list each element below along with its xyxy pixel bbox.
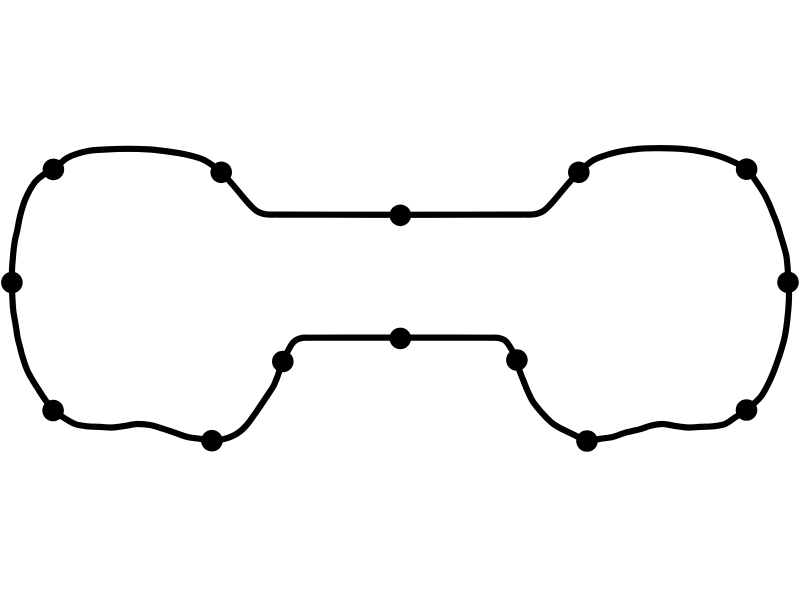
- bolt hole 14 (left extreme): [1, 272, 23, 294]
- bolt hole 8 (bottom-right inner): [576, 430, 598, 452]
- bolt hole 3 (top neck middle): [390, 205, 412, 227]
- bolt hole 10 (bottom neck middle): [390, 328, 412, 350]
- bolt hole 12 (bottom-left inner): [201, 430, 223, 452]
- bolt hole 4 (top-right inner): [568, 162, 590, 184]
- gasket outline: [12, 148, 789, 441]
- bolt hole 1 (top-left outer): [43, 159, 65, 181]
- bolt hole 2 (top-left inner): [210, 162, 232, 184]
- bolt hole 9 (bottom neck right): [506, 349, 528, 371]
- bolt hole 5 (top-right outer): [736, 158, 758, 180]
- bolt hole 6 (right extreme): [777, 272, 799, 294]
- bolt hole 13 (bottom-left outer): [42, 400, 64, 422]
- bolt hole 7 (bottom-right outer): [736, 399, 758, 421]
- bolt hole 11 (bottom neck left): [272, 351, 294, 373]
